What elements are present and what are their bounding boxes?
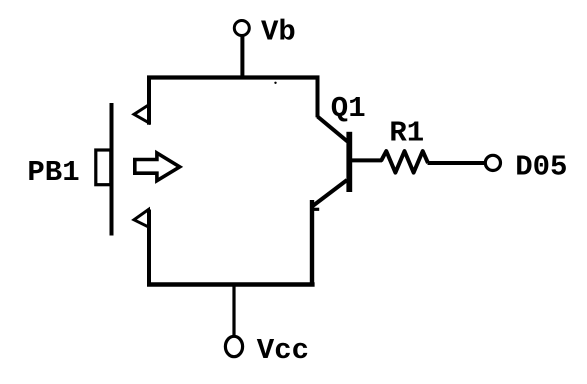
transistor Q1 collector vertical — [316, 76, 320, 118]
svg-text:R1: R1 — [389, 117, 424, 150]
transistor Q1 collector diagonal — [318, 117, 348, 142]
pushbutton PB1 cap rectangle — [96, 150, 111, 185]
terminal D05 circle — [485, 155, 500, 170]
transistor Q1 emitter diagonal — [312, 180, 347, 207]
terminal Vb circle — [234, 21, 249, 36]
wire right vertical (emitter to bottom) — [310, 200, 314, 285]
wire resistor to terminal — [428, 161, 485, 165]
actuation hollow arrow — [135, 153, 180, 181]
svg-text:Q1: Q1 — [331, 92, 366, 125]
svg-text:PB1: PB1 — [27, 156, 79, 189]
wire Vcc stem — [232, 285, 235, 337]
wire left vertical lower — [147, 210, 151, 287]
wire left vertical upper — [147, 76, 151, 125]
transistor Q1 emitter arrow barb — [310, 208, 319, 211]
stray dot — [274, 82, 276, 84]
svg-text:Vcc: Vcc — [257, 334, 309, 367]
contact arrowhead top — [134, 105, 149, 123]
contact arrowhead bottom — [134, 210, 149, 228]
svg-text:D05: D05 — [515, 150, 567, 183]
svg-text:Vb: Vb — [261, 16, 296, 49]
wire bottom horizontal — [147, 282, 315, 287]
pushbutton PB1 plunger line — [110, 103, 114, 236]
terminal Vcc circle — [225, 336, 242, 356]
wire top horizontal — [147, 75, 320, 79]
wire base to resistor — [352, 158, 382, 162]
wire Vb stem — [240, 37, 244, 80]
transistor Q1 base bar — [346, 132, 352, 192]
resistor R1 zigzag — [381, 151, 428, 173]
